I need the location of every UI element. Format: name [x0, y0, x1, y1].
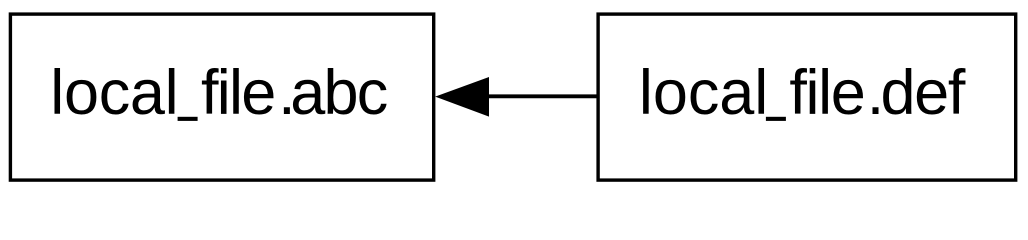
- node local_file.abc label underscore: [178, 117, 198, 121]
- svg-text:file: file: [789, 58, 864, 128]
- node local_file.abc box: [10, 14, 433, 180]
- edge def->abc arrowhead: [435, 77, 489, 117]
- node local_file.def label underscore: [766, 117, 786, 121]
- svg-text:def: def: [881, 58, 966, 128]
- edge def->abc wire: [487, 94, 598, 98]
- svg-text:file: file: [201, 58, 275, 128]
- node local_file.def box: [598, 14, 1016, 180]
- svg-text:abc: abc: [290, 58, 387, 128]
- svg-text:local: local: [50, 58, 178, 128]
- svg-text:local: local: [639, 58, 768, 128]
